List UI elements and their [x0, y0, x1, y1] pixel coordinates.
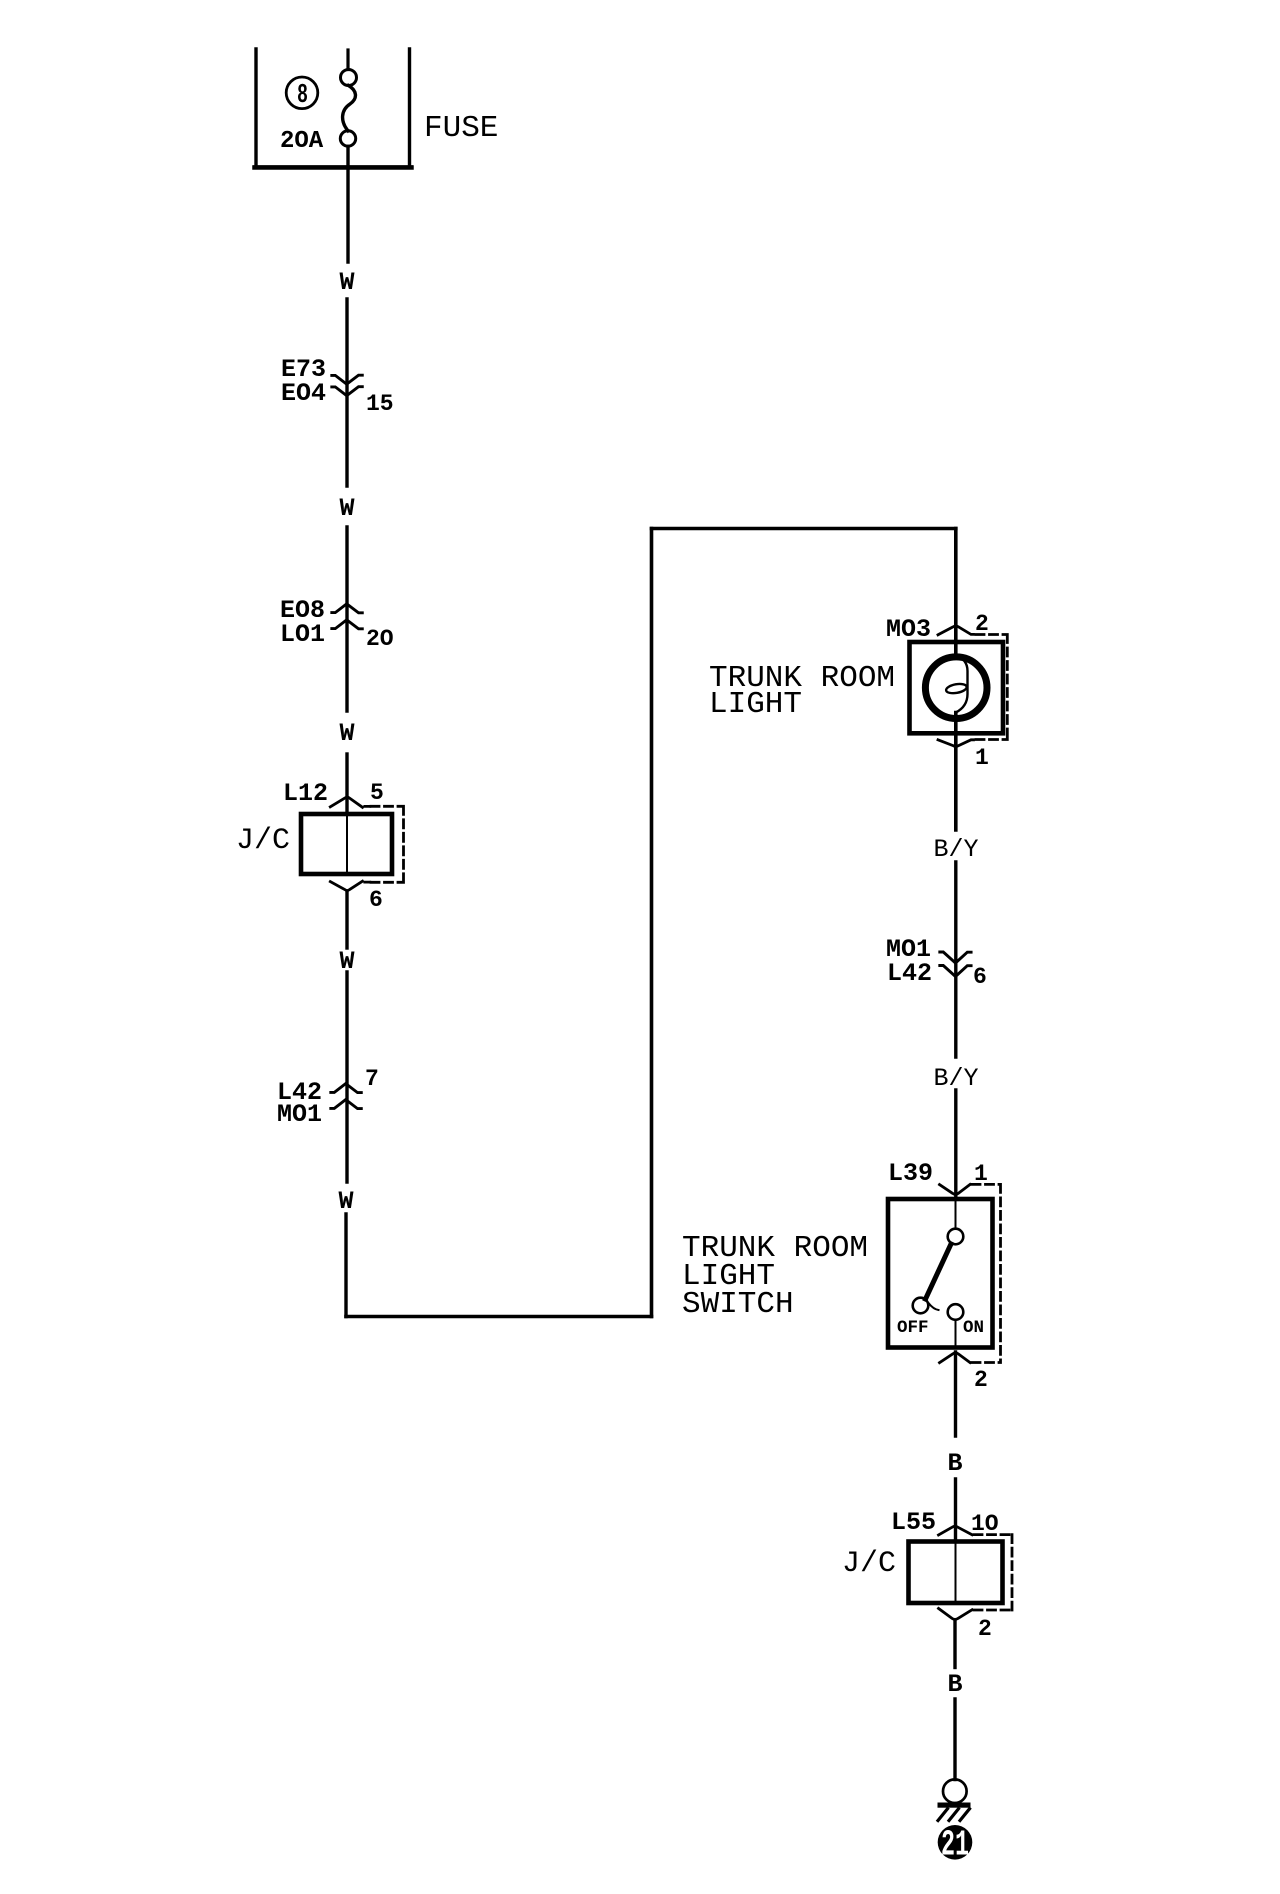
svg-text:J/C: J/C: [236, 824, 290, 858]
fuse box: [255, 49, 412, 167]
bulb: [925, 657, 987, 719]
svg-text:21: 21: [941, 1825, 969, 1866]
svg-text:2: 2: [974, 1367, 988, 1393]
svg-text:LIGHT: LIGHT: [709, 687, 802, 722]
svg-text:6: 6: [369, 887, 383, 913]
svg-text:B: B: [947, 1449, 962, 1478]
svg-text:L39: L39: [888, 1159, 933, 1188]
svg-text:OFF: OFF: [897, 1318, 929, 1338]
wire through J/C L12: [346, 814, 348, 874]
switch dashed housing: [972, 1184, 1001, 1362]
bulb filament: [956, 655, 968, 713]
J/C L12 dashed housing: [371, 806, 404, 882]
J/C L55 bottom chevron pin 2: [939, 1608, 973, 1619]
svg-text:15: 15: [366, 391, 394, 417]
wire bottom horizontal: [346, 1315, 652, 1319]
svg-text:W: W: [338, 1187, 353, 1216]
wire: [954, 862, 957, 1057]
switch terminal 1: [948, 1229, 964, 1245]
svg-text:L12: L12: [283, 779, 328, 808]
svg-text:8: 8: [297, 81, 308, 111]
wire down to corner: [344, 1214, 347, 1317]
switch ON terminal: [948, 1304, 964, 1320]
svg-text:MO3: MO3: [886, 615, 931, 644]
switch lever: [926, 1244, 952, 1299]
switch bottom chevron pin 2: [940, 1353, 971, 1363]
svg-text:2O: 2O: [366, 626, 394, 652]
ground point 21: [938, 1825, 973, 1860]
J/C L12 top chevron pin 5: [330, 797, 370, 807]
wire from J/C: [953, 1621, 956, 1668]
lamp top chevron pin 2: [938, 626, 974, 635]
wire: [954, 1479, 957, 1542]
svg-text:L55: L55: [891, 1508, 936, 1537]
wire top horizontal: [652, 527, 956, 531]
svg-text:FUSE: FUSE: [424, 111, 498, 146]
svg-text:W: W: [339, 719, 354, 748]
wire: [345, 754, 348, 814]
fuse F8 20A: [346, 50, 349, 70]
svg-text:W: W: [339, 268, 354, 297]
switch internal wire top: [955, 1201, 957, 1228]
wire through J/C L55: [955, 1542, 957, 1604]
svg-text:6: 6: [973, 964, 987, 990]
svg-text:2OA: 2OA: [280, 128, 324, 155]
svg-text:L42: L42: [887, 959, 932, 988]
J/C L55 box: [909, 1542, 1003, 1604]
svg-text:1: 1: [975, 745, 989, 771]
svg-text:SWITCH: SWITCH: [682, 1287, 794, 1322]
trunk room light box: [910, 642, 1004, 733]
wire: [345, 299, 348, 486]
wire: [345, 527, 348, 711]
wire vertical riser: [650, 529, 654, 1317]
ground symbol: [943, 1779, 967, 1803]
switch OFF terminal: [913, 1298, 929, 1314]
wire from lamp: [954, 713, 958, 831]
switch top chevron: [940, 1185, 971, 1195]
wire: [954, 1090, 957, 1199]
J/C L12 bottom chevron pin 6: [330, 881, 370, 890]
wire from switch: [954, 1352, 957, 1436]
switch internal wire bottom: [955, 1320, 957, 1347]
J/C L12 box: [301, 814, 392, 874]
svg-text:5: 5: [370, 780, 384, 806]
svg-text:EO4: EO4: [281, 379, 326, 408]
J/C L55 dashed housing: [974, 1535, 1012, 1610]
svg-text:J/C: J/C: [842, 1547, 896, 1581]
wire to ground: [953, 1699, 956, 1780]
svg-text:MO1: MO1: [277, 1100, 322, 1129]
wire: [345, 972, 348, 1182]
svg-text:1O: 1O: [971, 1511, 999, 1537]
svg-text:W: W: [339, 494, 354, 523]
J/C L55 top chevron: [939, 1526, 973, 1535]
fuse number 8 circle: [286, 77, 318, 109]
lamp bottom chevron pin 1: [938, 740, 974, 747]
svg-text:B: B: [947, 1670, 962, 1699]
wire: [345, 891, 348, 948]
svg-text:2: 2: [978, 1616, 992, 1642]
wire down to lamp: [954, 529, 958, 655]
trunk room light switch box: [888, 1199, 993, 1348]
svg-text:7: 7: [365, 1066, 379, 1092]
lamp dashed housing: [976, 635, 1007, 740]
svg-text:LO1: LO1: [280, 620, 325, 649]
lever hook: [929, 1303, 939, 1310]
svg-text:B/Y: B/Y: [933, 835, 978, 864]
svg-text:ON: ON: [963, 1318, 984, 1338]
